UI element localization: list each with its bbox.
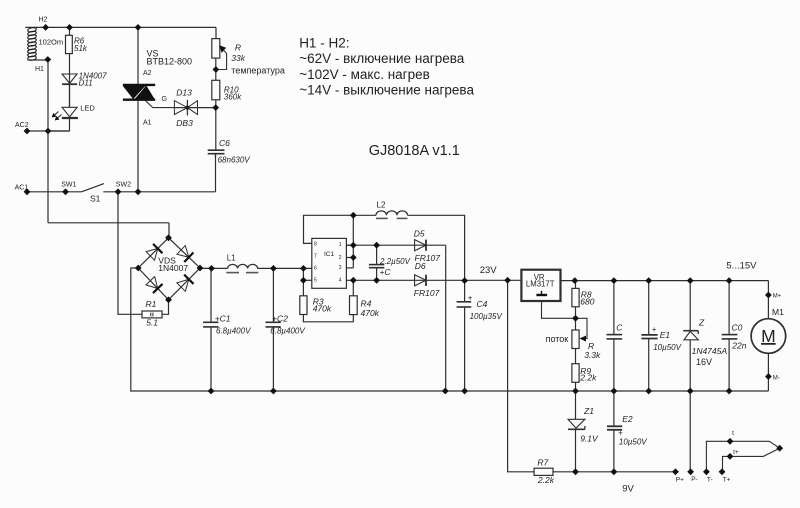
svg-text:P-: P-	[691, 476, 698, 483]
svg-text:AC1: AC1	[15, 184, 29, 191]
svg-text:t+: t+	[733, 449, 739, 456]
svg-text:L2: L2	[377, 201, 386, 210]
svg-text:2.2k: 2.2k	[537, 475, 555, 485]
svg-text:+C1: +C1	[215, 313, 231, 323]
svg-text:470k: 470k	[361, 308, 380, 318]
svg-text:22n: 22n	[731, 340, 746, 350]
svg-text:L1: L1	[227, 254, 236, 263]
svg-text:16V: 16V	[696, 357, 712, 367]
svg-text:3.3k: 3.3k	[584, 350, 601, 360]
svg-text:68n630V: 68n630V	[218, 156, 251, 165]
svg-text:C6: C6	[219, 138, 230, 148]
svg-text:470k: 470k	[313, 304, 332, 314]
svg-text:R7: R7	[537, 458, 548, 468]
svg-text:6.8µ400V: 6.8µ400V	[270, 326, 305, 335]
svg-text:10µ50V: 10µ50V	[619, 437, 647, 446]
svg-text:C4: C4	[477, 299, 488, 309]
svg-text:IC1: IC1	[324, 251, 335, 258]
svg-text:LM317T: LM317T	[526, 280, 555, 289]
svg-text:4: 4	[339, 278, 342, 284]
svg-text:102Om: 102Om	[39, 37, 64, 46]
svg-text:6: 6	[314, 266, 317, 272]
svg-text:+C2: +C2	[272, 313, 288, 323]
svg-text:поток: поток	[546, 334, 569, 344]
svg-text:D11: D11	[79, 78, 93, 87]
svg-text:GJ8018A v1.1: GJ8018A v1.1	[369, 143, 460, 159]
svg-text:~62V - включение нагрева: ~62V - включение нагрева	[299, 51, 465, 66]
svg-text:R1: R1	[146, 299, 157, 309]
svg-text:680: 680	[580, 297, 594, 307]
svg-text:E2: E2	[622, 414, 633, 424]
svg-text:S1: S1	[90, 194, 101, 204]
svg-text:Z: Z	[698, 317, 705, 327]
svg-text:M1: M1	[772, 307, 784, 317]
svg-text:P+: P+	[676, 477, 684, 484]
svg-text:D13: D13	[176, 88, 192, 98]
svg-text:9.1V: 9.1V	[580, 434, 599, 444]
svg-text:AC2: AC2	[15, 122, 29, 129]
svg-text:H2: H2	[39, 17, 48, 24]
svg-text:C0: C0	[732, 323, 743, 333]
svg-text:BTB12-800: BTB12-800	[147, 57, 193, 67]
svg-text:9V: 9V	[622, 484, 634, 495]
svg-text:D6: D6	[415, 261, 426, 271]
svg-text:E1: E1	[660, 330, 671, 340]
svg-text:T+: T+	[723, 477, 731, 484]
svg-text:LED: LED	[80, 104, 95, 113]
svg-text:H1 - H2:: H1 - H2:	[299, 35, 349, 50]
svg-text:5...15V: 5...15V	[726, 261, 757, 272]
svg-text:3: 3	[339, 265, 342, 271]
svg-text:51k: 51k	[74, 44, 88, 53]
svg-text:100µ35V: 100µ35V	[470, 312, 503, 321]
svg-text:1N4745A: 1N4745A	[692, 346, 728, 356]
svg-text:2.2µ50V: 2.2µ50V	[379, 257, 411, 266]
svg-text:1: 1	[339, 242, 342, 248]
svg-text:M-: M-	[773, 376, 780, 382]
svg-text:G: G	[162, 96, 167, 103]
svg-text:~14V - выключение нагрева: ~14V - выключение нагрева	[299, 82, 474, 97]
svg-text:t: t	[732, 430, 734, 437]
svg-text:DB3: DB3	[176, 118, 193, 128]
svg-text:10µ50V: 10µ50V	[653, 343, 681, 352]
svg-text:D5: D5	[414, 229, 425, 239]
svg-text:2: 2	[339, 255, 342, 261]
svg-text:23V: 23V	[480, 265, 498, 276]
svg-text:A2: A2	[143, 70, 152, 77]
svg-text:+: +	[618, 428, 623, 437]
svg-text:360k: 360k	[224, 93, 242, 102]
svg-text:+: +	[652, 325, 657, 334]
svg-text:FR107: FR107	[414, 288, 440, 298]
svg-text:T-: T-	[707, 477, 713, 484]
svg-text:7: 7	[314, 254, 317, 260]
svg-text:H1: H1	[35, 66, 44, 73]
svg-text:Z1: Z1	[583, 406, 594, 416]
svg-text:5.1: 5.1	[146, 318, 158, 328]
svg-text:+: +	[468, 294, 473, 303]
svg-text:8: 8	[314, 242, 317, 248]
svg-text:~102V - макс. нагрев: ~102V - макс. нагрев	[299, 67, 430, 82]
svg-text:SW1: SW1	[61, 181, 76, 188]
svg-text:1N4007: 1N4007	[158, 263, 188, 273]
svg-text:M: M	[761, 326, 776, 346]
svg-text:6.8µ400V: 6.8µ400V	[216, 326, 251, 335]
svg-text:A1: A1	[143, 120, 152, 127]
svg-text:температура: температура	[231, 65, 285, 75]
svg-text:R: R	[235, 43, 241, 53]
svg-text:M+: M+	[773, 294, 782, 300]
svg-text:33k: 33k	[231, 53, 245, 63]
svg-text:+C: +C	[380, 267, 392, 277]
svg-text:2.2k: 2.2k	[579, 373, 597, 383]
svg-text:SW2: SW2	[116, 181, 131, 188]
svg-text:C: C	[616, 323, 623, 333]
svg-text:5: 5	[314, 278, 317, 284]
